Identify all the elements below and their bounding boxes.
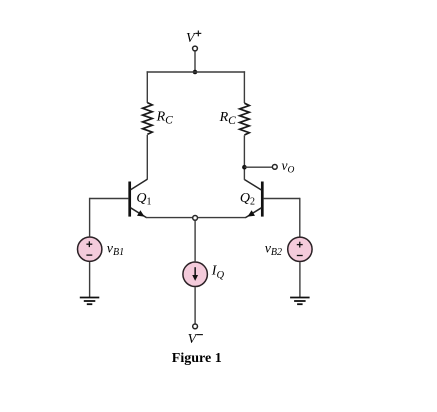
wire vB1 to ground [89, 262, 91, 297]
wire Q1 emitter to node E [146, 217, 192, 219]
wire top rail [147, 71, 246, 73]
wire IQ to V- terminal [194, 287, 196, 324]
wire vB2 to ground [299, 262, 301, 297]
wire to vO terminal [244, 166, 272, 168]
svg-text:IQ: IQ [211, 264, 225, 281]
ground left [80, 298, 100, 305]
junction top rail [193, 70, 198, 75]
node E terminal [193, 216, 198, 221]
svg-text:RC: RC [156, 109, 174, 126]
svg-text:vO: vO [282, 158, 295, 176]
source vB2 [288, 237, 312, 261]
svg-text:RC: RC [219, 110, 237, 127]
svg-text:V: V [186, 31, 196, 46]
svg-text:Figure 1: Figure 1 [172, 351, 222, 366]
wire V+ terminal to rail [194, 51, 196, 72]
ground right [290, 298, 310, 305]
svg-text:V: V [188, 332, 198, 347]
wire node E to Q2 emitter [198, 217, 246, 219]
wire Q1 base [90, 198, 129, 200]
node vO terminal [272, 165, 277, 170]
resistor RC1 [143, 103, 153, 135]
wire RC2 to Q2 collector [243, 135, 245, 180]
wire node E to IQ [194, 220, 196, 261]
node V- terminal [193, 324, 198, 329]
wire base to vB2 [299, 198, 301, 237]
wire right rail to RC2 [243, 71, 245, 103]
wire Q2 base [264, 198, 300, 200]
junction collector output node [242, 165, 247, 170]
resistor RC2 [240, 103, 250, 135]
wire base to vB1 [89, 198, 91, 237]
svg-text:Q2: Q2 [240, 191, 255, 208]
transistor Q2 [244, 180, 262, 218]
svg-text:vB1: vB1 [107, 242, 124, 258]
wire RC1 to Q1 collector [146, 135, 148, 180]
node V+ terminal [193, 46, 198, 51]
svg-text:vB2: vB2 [265, 241, 282, 257]
source vB1 [78, 237, 102, 261]
current source IQ [183, 262, 208, 287]
svg-text:Q1: Q1 [136, 191, 151, 208]
transistor Q1 [130, 179, 148, 217]
wire left rail to RC1 [146, 71, 148, 103]
